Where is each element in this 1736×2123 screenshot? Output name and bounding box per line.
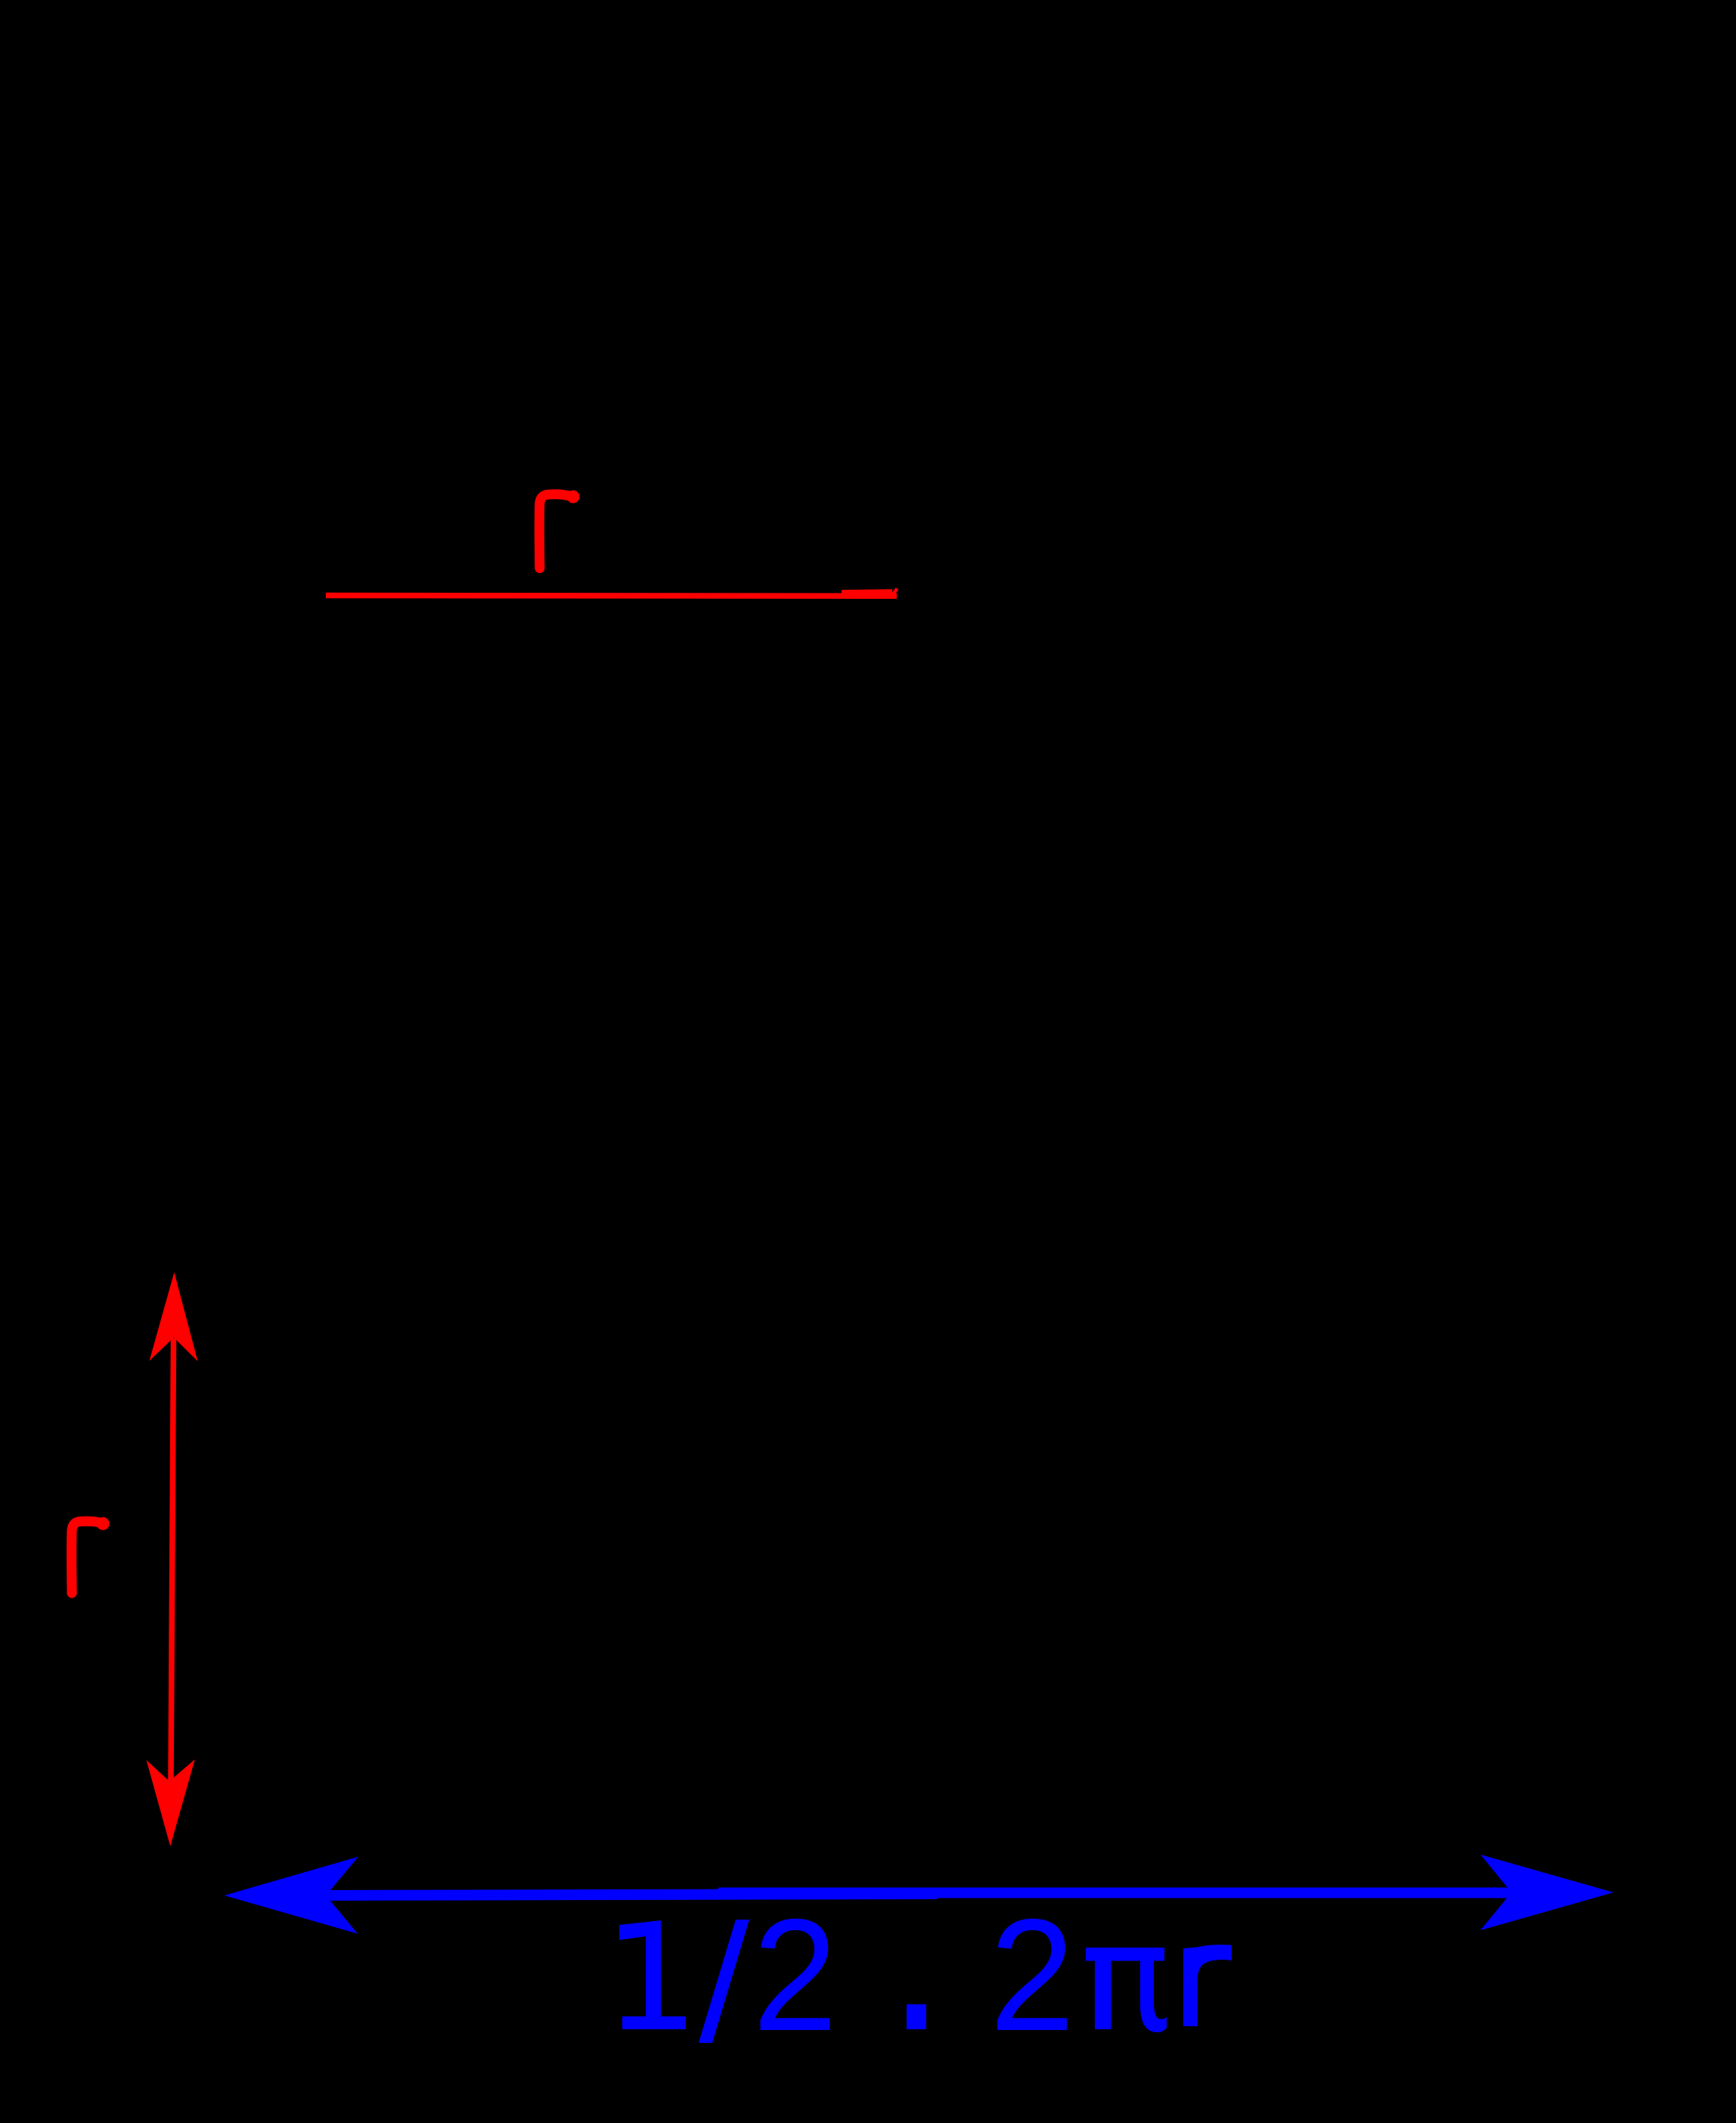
svg-text:2: 2 bbox=[753, 1886, 838, 2064]
svg-text:2: 2 bbox=[990, 1886, 1074, 2064]
